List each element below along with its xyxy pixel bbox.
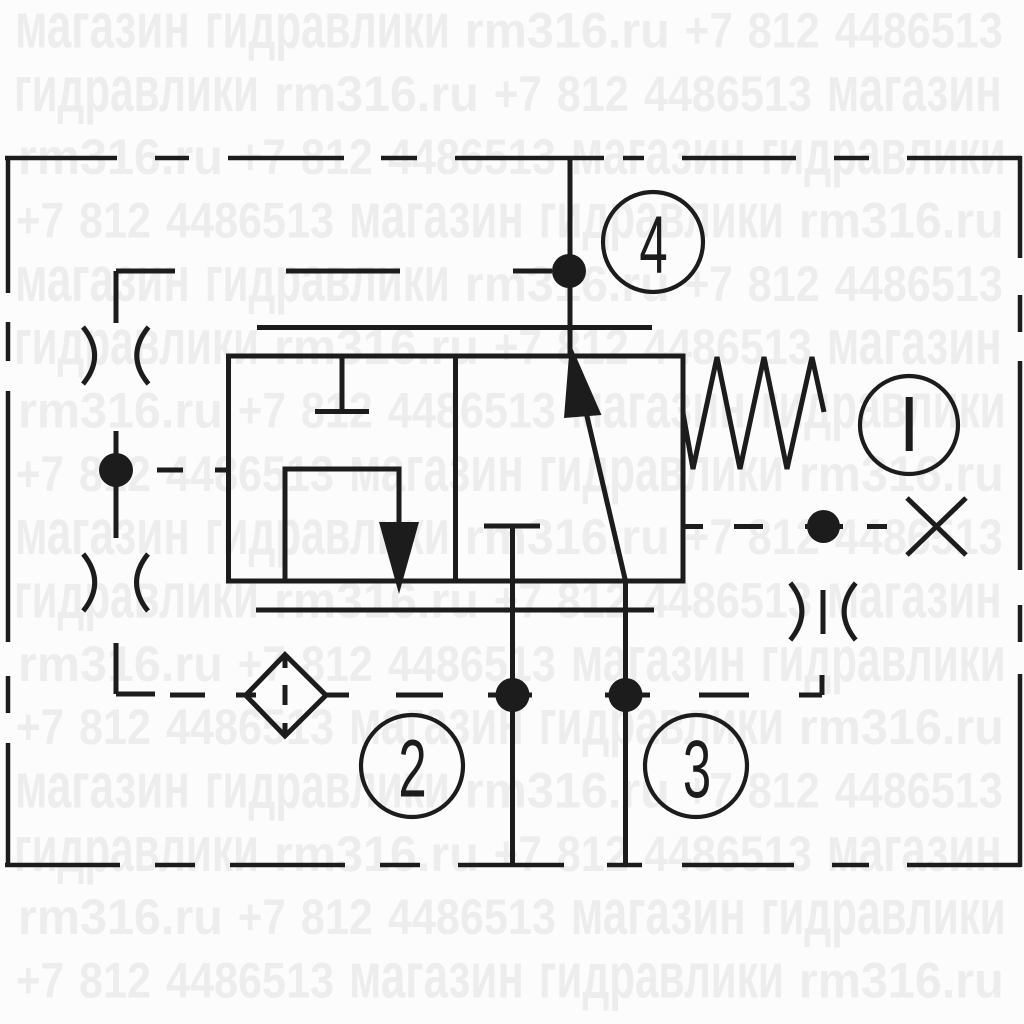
flow path left chamber [285, 469, 399, 581]
svg-text:812: 812 [748, 3, 820, 59]
svg-text:+7: +7 [16, 192, 64, 248]
dashed drain gallery horizontal [170, 693, 749, 698]
svg-text:812: 812 [79, 193, 151, 249]
port label circle 2 [361, 715, 463, 817]
svg-text:магазин: магазин [15, 0, 190, 61]
svg-text:rm316.ru: rm316.ru [18, 636, 223, 692]
svg-text:гидравлики: гидравлики [14, 814, 259, 885]
svg-text:rm316.ru: rm316.ru [18, 889, 223, 945]
svg-text:4486513: 4486513 [644, 66, 812, 122]
filter diamond [246, 655, 326, 736]
svg-text:4486513: 4486513 [166, 446, 334, 502]
wire port 4 vertical [568, 158, 573, 356]
wire port 3 vertical [623, 581, 628, 866]
svg-text:812: 812 [748, 763, 820, 819]
flow arrowhead diagonal [564, 343, 602, 418]
flow arrow down left chamber [379, 522, 419, 594]
svg-text:4486513: 4486513 [166, 699, 334, 755]
dashed envelope right border [1018, 156, 1023, 867]
port label circle 4 [603, 192, 703, 292]
svg-text:4486513: 4486513 [388, 636, 556, 692]
svg-text:rm316.ru: rm316.ru [465, 3, 670, 59]
dashed pilot branch to valve left side [157, 468, 229, 473]
svg-text:4486513: 4486513 [835, 763, 1003, 819]
svg-text:магазин: магазин [571, 622, 746, 694]
svg-text:+7: +7 [494, 65, 542, 121]
svg-text:+7: +7 [494, 825, 542, 881]
svg-text:4486513: 4486513 [835, 256, 1003, 312]
svg-text:гидравлики: гидравлики [14, 54, 259, 125]
svg-text:812: 812 [748, 256, 820, 312]
svg-text:магазин: магазин [571, 876, 746, 948]
svg-text:магазин: магазин [827, 812, 1002, 884]
wire port 2 vertical [510, 526, 515, 865]
flow path diagonal right chamber [586, 412, 626, 581]
svg-text:магазин: магазин [15, 242, 190, 314]
port label circle 1 [860, 376, 958, 474]
upper infinite-position line [257, 325, 652, 330]
svg-text:812: 812 [79, 699, 151, 755]
spring [683, 357, 824, 469]
svg-text:+7: +7 [16, 699, 64, 755]
svg-text:магазин: магазин [827, 306, 1002, 378]
svg-text:rm316.ru: rm316.ru [799, 193, 1004, 249]
junction dot port 4 [552, 254, 586, 288]
svg-text:812: 812 [557, 66, 629, 122]
svg-text:гидравлики: гидравлики [539, 687, 784, 758]
svg-text:rm316.ru: rm316.ru [274, 66, 479, 122]
svg-text:гидравлики: гидравлики [761, 118, 1006, 189]
svg-text:2: 2 [398, 723, 426, 814]
orifice restriction upper left [83, 327, 149, 384]
svg-text:812: 812 [301, 889, 373, 945]
svg-text:магазин: магазин [15, 749, 190, 821]
junction dot left pilot node [99, 453, 133, 487]
junction dot port 3 [609, 678, 643, 712]
svg-text:4: 4 [639, 199, 667, 290]
port label circle 3 [645, 715, 747, 817]
svg-text:гидравлики: гидравлики [761, 624, 1006, 695]
dashed line corner right drain [799, 675, 822, 695]
svg-text:812: 812 [748, 509, 820, 565]
svg-text:магазин: магазин [349, 939, 524, 1011]
svg-text:+7: +7 [238, 889, 286, 945]
svg-text:rm316.ru: rm316.ru [465, 763, 670, 819]
svg-text:rm316.ru: rm316.ru [799, 953, 1004, 1009]
svg-text:магазин: магазин [827, 559, 1002, 631]
svg-text:магазин: магазин [571, 116, 746, 188]
svg-text:rm316.ru: rm316.ru [465, 509, 670, 565]
blocked port T symbol left chamber [315, 356, 369, 412]
svg-text:гидравлики: гидравлики [761, 877, 1006, 948]
filter diamond dashed center line [283, 658, 288, 733]
svg-text:3: 3 [683, 724, 711, 815]
svg-text:магазин: магазин [15, 496, 190, 568]
svg-text:rm316.ru: rm316.ru [799, 699, 1004, 755]
svg-text:+7: +7 [16, 445, 64, 501]
closed port X symbol [907, 498, 966, 555]
dashed pilot line port 1 [684, 524, 887, 529]
valve body box [229, 356, 684, 581]
dashed envelope left border [6, 156, 11, 867]
dashed envelope bottom border [5, 863, 1021, 868]
svg-text:4486513: 4486513 [166, 193, 334, 249]
svg-text:4486513: 4486513 [388, 889, 556, 945]
svg-text:4486513: 4486513 [166, 952, 334, 1008]
svg-text:гидравлики: гидравлики [539, 941, 784, 1012]
lower infinite-position line [256, 608, 654, 613]
svg-text:rm316.ru: rm316.ru [274, 826, 479, 882]
svg-text:4486513: 4486513 [388, 383, 556, 439]
svg-text:+7: +7 [238, 382, 286, 438]
svg-text:4486513: 4486513 [644, 826, 812, 882]
junction dot port 1 line [807, 510, 840, 543]
svg-text:812: 812 [79, 952, 151, 1008]
valve center divider [453, 356, 458, 581]
dashed envelope top border [5, 156, 1021, 161]
svg-text:rm316.ru: rm316.ru [18, 383, 223, 439]
svg-text:4486513: 4486513 [835, 3, 1003, 59]
dashed pilot line to port 4 node [116, 269, 552, 274]
svg-text:4486513: 4486513 [644, 319, 812, 375]
junction dot port 2 [496, 678, 530, 712]
orifice restriction lower left [83, 554, 148, 611]
svg-text:+7: +7 [685, 2, 733, 58]
svg-text:магазин: магазин [827, 52, 1002, 124]
dashed pilot drain line (left vertical) [116, 271, 155, 694]
svg-text:+7: +7 [16, 952, 64, 1008]
svg-text:магазин: магазин [349, 179, 524, 251]
blocked port T symbol right chamber [484, 524, 540, 529]
svg-text:гидравлики: гидравлики [205, 244, 450, 315]
svg-text:+7: +7 [685, 509, 733, 565]
svg-text:4486513: 4486513 [835, 509, 1003, 565]
svg-text:гидравлики: гидравлики [205, 0, 450, 62]
svg-text:+7: +7 [685, 255, 733, 311]
svg-text:812: 812 [557, 826, 629, 882]
orifice restriction right with through-dash [790, 583, 855, 640]
